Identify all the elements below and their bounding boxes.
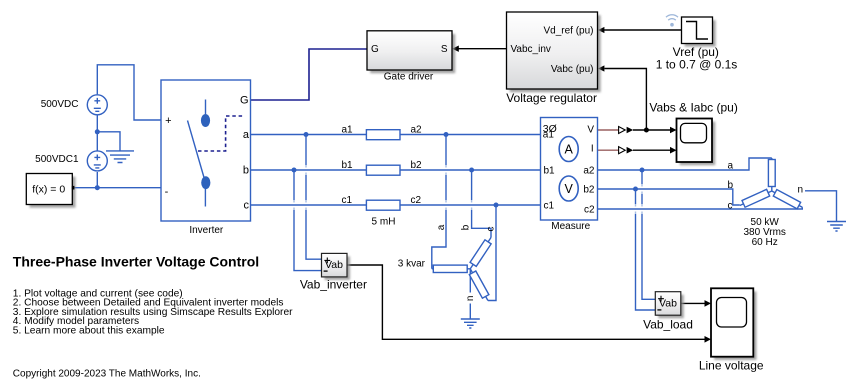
- svg-text:b1: b1: [544, 165, 556, 176]
- svg-text:Inverter: Inverter: [189, 225, 224, 236]
- svg-text:5. Learn more about this examp: 5. Learn more about this example: [13, 325, 165, 336]
- svg-text:Vab_load: Vab_load: [643, 318, 693, 332]
- svg-text:Voltage regulator: Voltage regulator: [506, 91, 597, 105]
- svg-text:S: S: [441, 44, 448, 55]
- svg-text:Vd_ref (pu): Vd_ref (pu): [543, 25, 593, 36]
- svg-text:3 kvar: 3 kvar: [398, 259, 426, 270]
- svg-text:a1: a1: [342, 124, 354, 135]
- svg-text:b: b: [728, 180, 734, 191]
- svg-text:a2: a2: [583, 165, 595, 176]
- svg-text:b2: b2: [583, 184, 595, 195]
- svg-text:b1: b1: [342, 160, 354, 171]
- svg-text:-: -: [165, 186, 169, 198]
- svg-text:V: V: [587, 124, 594, 135]
- svg-text:Vab: Vab: [659, 297, 677, 309]
- svg-text:Copyright 2009-2023 The MathWo: Copyright 2009-2023 The MathWorks, Inc.: [13, 369, 201, 380]
- svg-text:c: c: [728, 201, 733, 212]
- svg-text:c: c: [244, 200, 250, 212]
- svg-text:n: n: [465, 296, 476, 302]
- svg-text:Vab: Vab: [325, 259, 343, 271]
- svg-text:a: a: [436, 224, 447, 230]
- svg-text:c2: c2: [584, 204, 595, 215]
- svg-text:G: G: [371, 44, 379, 55]
- svg-text:b: b: [243, 165, 249, 177]
- svg-text:Three-Phase Inverter Voltage C: Three-Phase Inverter Voltage Control: [13, 254, 259, 270]
- svg-text:1 to 0.7 @ 0.1s: 1 to 0.7 @ 0.1s: [656, 58, 738, 72]
- svg-text:Gate driver: Gate driver: [384, 72, 434, 83]
- svg-text:b: b: [461, 224, 472, 230]
- svg-text:5 mH: 5 mH: [372, 216, 396, 227]
- svg-text:a2: a2: [411, 124, 423, 135]
- svg-text:b2: b2: [411, 160, 423, 171]
- svg-text:c1: c1: [544, 200, 555, 211]
- svg-text:+: +: [165, 115, 171, 127]
- svg-text:c2: c2: [411, 195, 422, 206]
- svg-text:A: A: [565, 143, 574, 157]
- svg-text:Measure: Measure: [551, 221, 590, 232]
- svg-text:a: a: [243, 129, 250, 141]
- svg-text:500VDC1: 500VDC1: [35, 154, 79, 165]
- svg-text:a: a: [728, 160, 734, 171]
- svg-text:Vabs & Iabc (pu): Vabs & Iabc (pu): [649, 101, 738, 115]
- svg-text:f(x) = 0: f(x) = 0: [32, 183, 65, 195]
- svg-text:V: V: [565, 182, 574, 196]
- svg-text:G: G: [240, 94, 249, 106]
- svg-text:500VDC: 500VDC: [41, 99, 79, 110]
- svg-text:Vabc (pu): Vabc (pu): [551, 64, 594, 75]
- svg-text:c: c: [486, 227, 497, 232]
- svg-text:60 Hz: 60 Hz: [752, 237, 778, 248]
- svg-text:c1: c1: [342, 195, 353, 206]
- svg-text:Vab_inverter: Vab_inverter: [300, 278, 367, 292]
- svg-text:I: I: [591, 144, 594, 155]
- svg-text:a1: a1: [543, 130, 555, 141]
- svg-text:n: n: [798, 184, 804, 195]
- svg-text:Line voltage: Line voltage: [699, 359, 764, 373]
- svg-text:Vabc_inv: Vabc_inv: [511, 44, 551, 55]
